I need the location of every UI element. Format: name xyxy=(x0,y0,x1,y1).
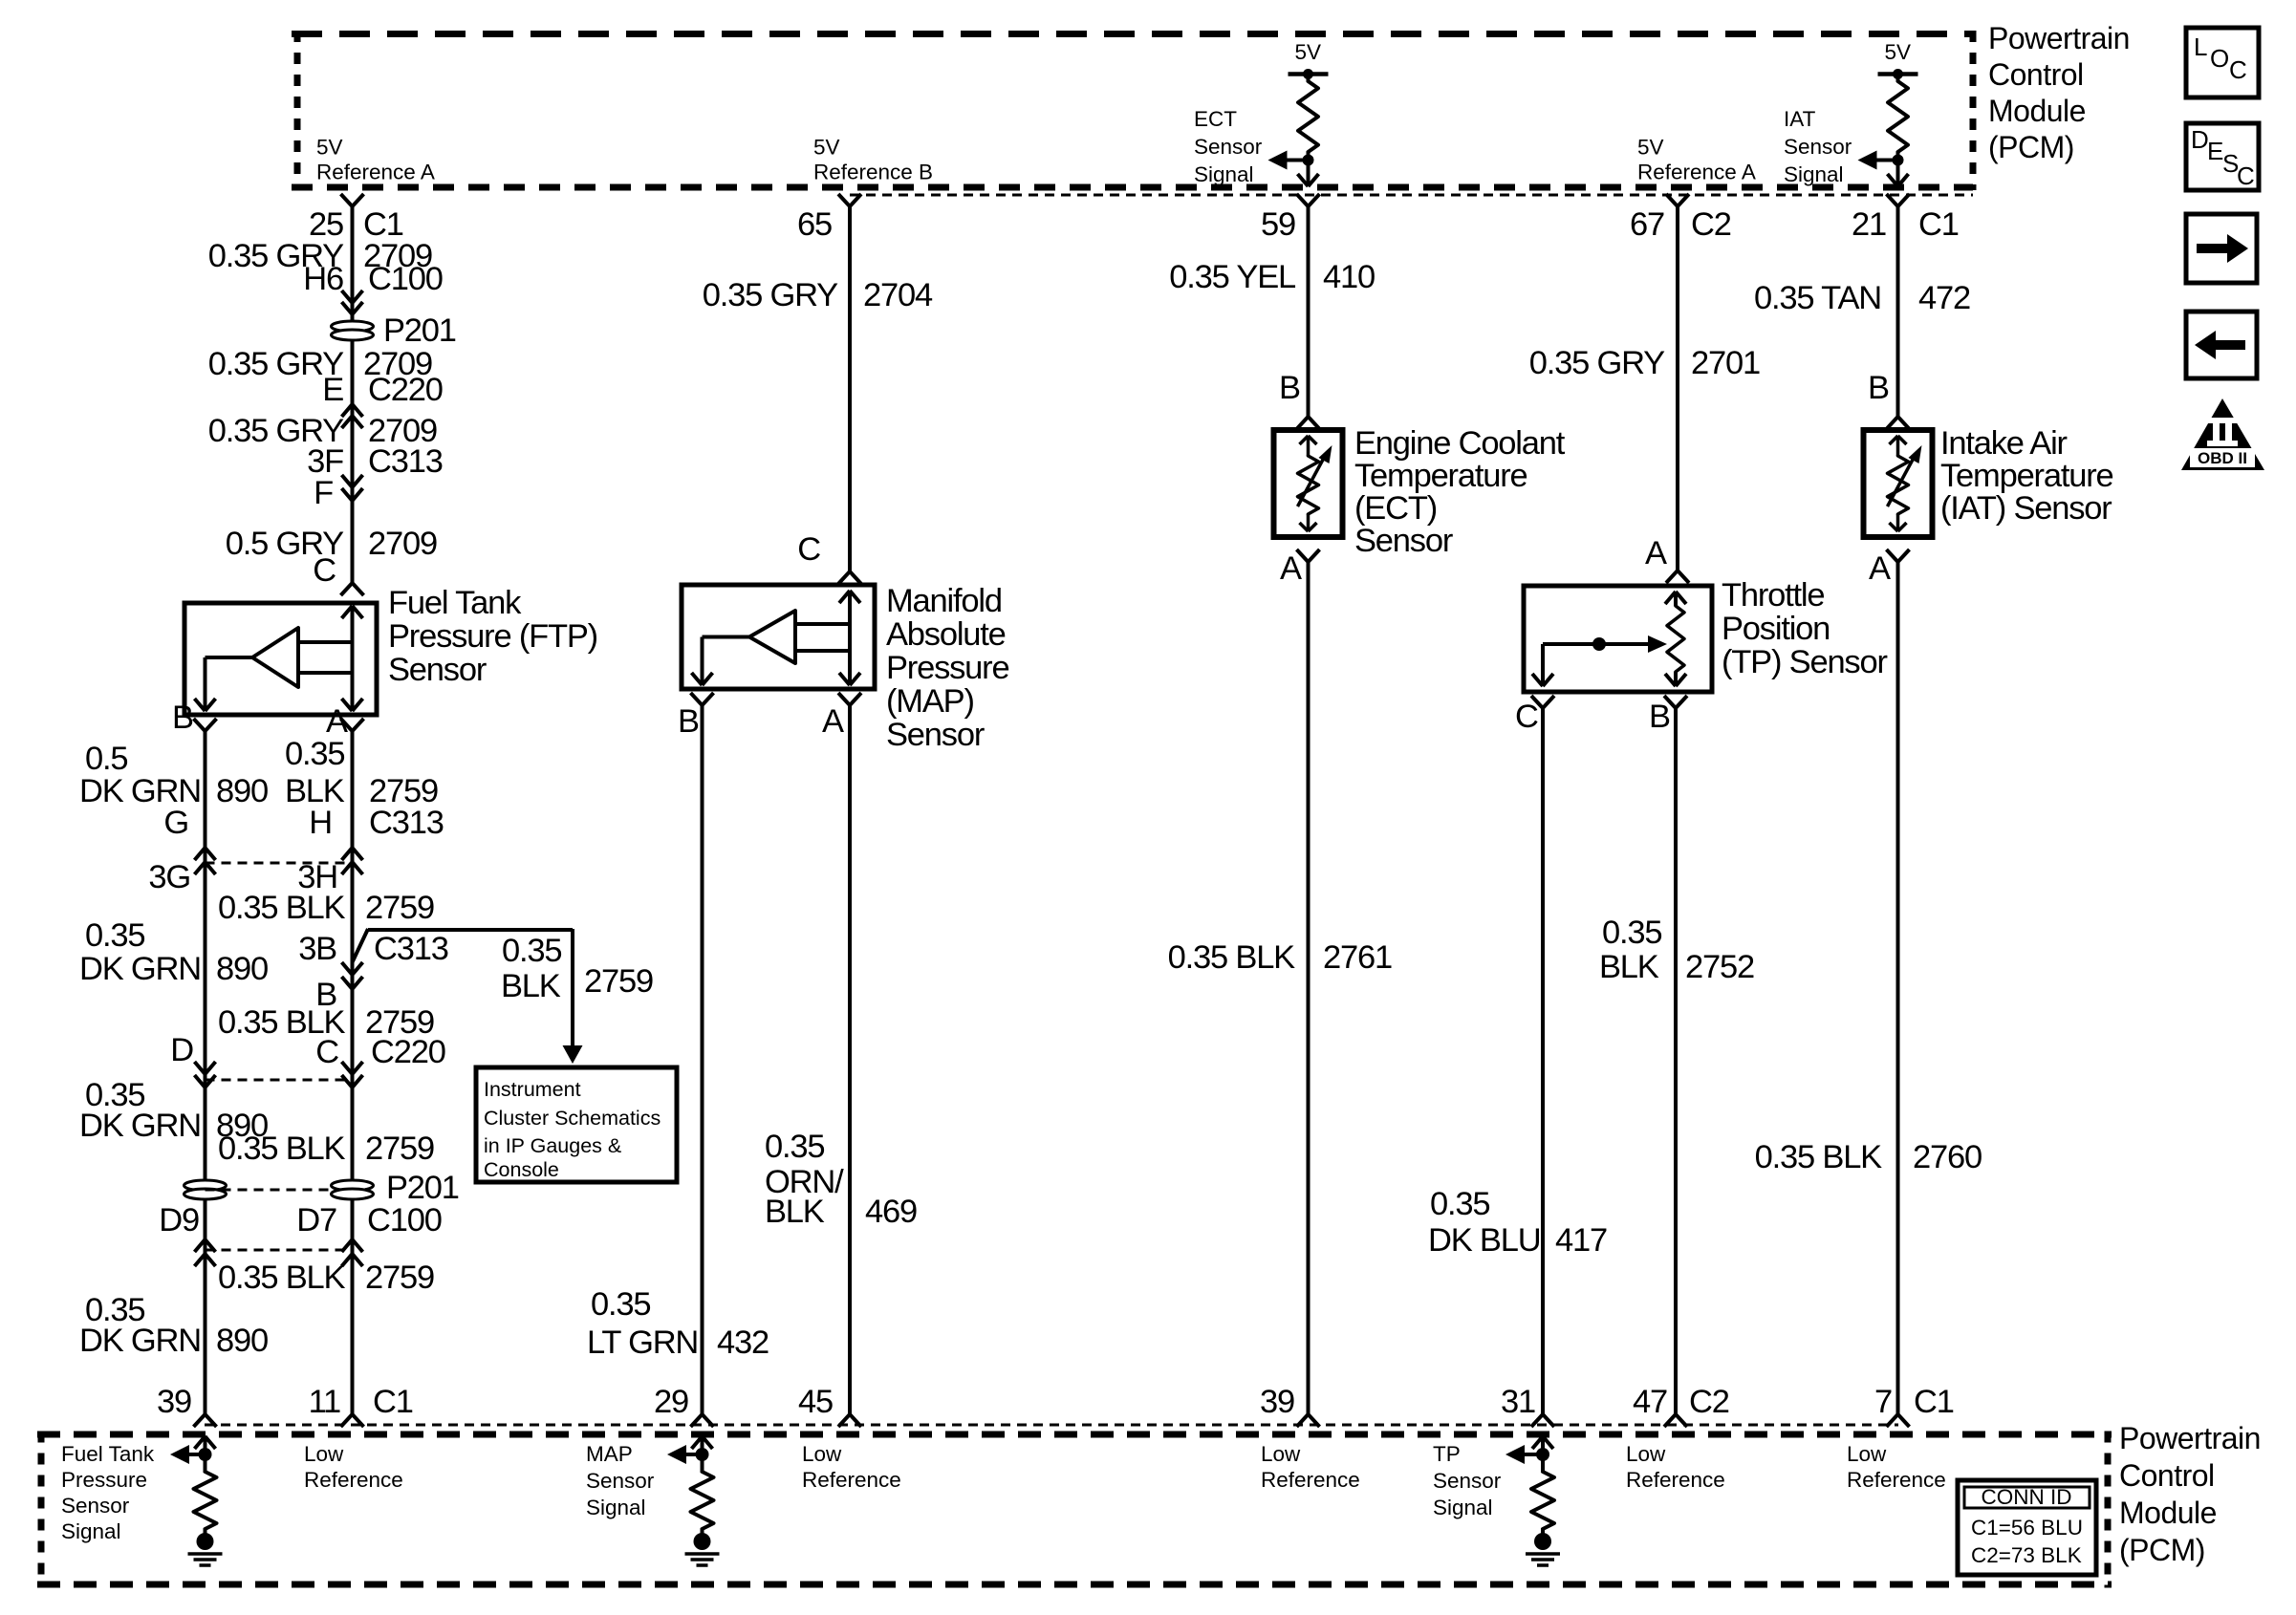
svg-text:Position: Position xyxy=(1722,611,1830,647)
svg-text:Sensor: Sensor xyxy=(1433,1469,1502,1493)
svg-text:5V: 5V xyxy=(813,136,840,160)
svg-text:890: 890 xyxy=(216,1323,268,1359)
svg-text:0.35 BLK: 0.35 BLK xyxy=(218,890,346,926)
svg-text:0.35 GRY: 0.35 GRY xyxy=(1529,345,1665,381)
svg-text:Signal: Signal xyxy=(1784,162,1844,186)
svg-text:C: C xyxy=(313,552,336,589)
svg-text:A: A xyxy=(1645,535,1667,571)
svg-text:31: 31 xyxy=(1501,1384,1535,1420)
svg-text:C: C xyxy=(2229,55,2247,84)
svg-text:C100: C100 xyxy=(368,261,443,297)
svg-text:Sensor: Sensor xyxy=(61,1494,130,1518)
svg-text:C2: C2 xyxy=(1691,206,1731,243)
svg-text:in IP Gauges &: in IP Gauges & xyxy=(484,1134,621,1157)
svg-text:C1: C1 xyxy=(1918,206,1959,243)
svg-text:0.35 YEL: 0.35 YEL xyxy=(1169,259,1296,295)
svg-text:Temperature: Temperature xyxy=(1940,458,2112,494)
svg-text:A: A xyxy=(1280,550,1302,587)
svg-text:TP: TP xyxy=(1433,1442,1461,1466)
svg-text:C1: C1 xyxy=(373,1384,413,1420)
svg-text:59: 59 xyxy=(1261,206,1295,243)
svg-text:C1: C1 xyxy=(1914,1384,1954,1420)
svg-text:Reference A: Reference A xyxy=(316,161,435,184)
svg-text:O: O xyxy=(2210,44,2229,73)
svg-text:Pressure: Pressure xyxy=(61,1468,147,1492)
svg-text:65: 65 xyxy=(797,206,832,243)
svg-text:2759: 2759 xyxy=(365,1260,434,1296)
svg-text:Low: Low xyxy=(1626,1442,1666,1466)
svg-text:Module: Module xyxy=(1988,94,2086,128)
svg-text:(IAT) Sensor: (IAT) Sensor xyxy=(1940,490,2112,527)
svg-text:OBD II: OBD II xyxy=(2198,449,2247,467)
svg-text:Signal: Signal xyxy=(586,1496,646,1519)
svg-text:BLK: BLK xyxy=(1599,949,1659,985)
svg-text:0.35 BLK: 0.35 BLK xyxy=(218,1130,346,1167)
svg-text:0.35 TAN: 0.35 TAN xyxy=(1754,280,1881,316)
svg-text:0.35 BLK: 0.35 BLK xyxy=(218,1260,346,1296)
svg-text:B: B xyxy=(1868,370,1889,406)
svg-text:5V: 5V xyxy=(1637,136,1664,160)
svg-text:469: 469 xyxy=(865,1194,917,1230)
svg-text:C: C xyxy=(2237,161,2255,190)
svg-text:0.35 BLK: 0.35 BLK xyxy=(1168,939,1296,976)
svg-text:L: L xyxy=(2194,32,2207,61)
svg-text:39: 39 xyxy=(1260,1384,1294,1420)
svg-text:Pressure (FTP): Pressure (FTP) xyxy=(388,618,597,655)
svg-text:5V: 5V xyxy=(316,136,343,160)
svg-text:Sensor: Sensor xyxy=(586,1469,655,1493)
svg-text:B: B xyxy=(1649,699,1670,735)
svg-text:Sensor: Sensor xyxy=(1354,523,1453,559)
svg-text:(ECT): (ECT) xyxy=(1354,490,1437,527)
svg-text:G: G xyxy=(163,805,188,841)
svg-text:C2=73 BLK: C2=73 BLK xyxy=(1971,1543,2082,1567)
svg-text:C: C xyxy=(315,1034,338,1070)
svg-text:C: C xyxy=(1515,699,1538,735)
svg-text:2701: 2701 xyxy=(1691,345,1760,381)
svg-text:472: 472 xyxy=(1918,280,1970,316)
svg-text:Console: Console xyxy=(484,1158,559,1181)
svg-text:Reference: Reference xyxy=(304,1468,403,1492)
svg-text:Engine Coolant: Engine Coolant xyxy=(1354,425,1566,462)
svg-text:67: 67 xyxy=(1630,206,1664,243)
svg-text:3G: 3G xyxy=(148,859,190,895)
svg-text:Intake Air: Intake Air xyxy=(1940,425,2068,462)
svg-text:Reference: Reference xyxy=(1626,1468,1725,1492)
svg-text:E: E xyxy=(2207,137,2223,165)
svg-text:Powertrain: Powertrain xyxy=(1988,21,2130,55)
svg-text:IAT: IAT xyxy=(1784,107,1816,131)
svg-text:A: A xyxy=(822,703,844,740)
svg-text:E: E xyxy=(322,372,343,408)
svg-text:(PCM): (PCM) xyxy=(1988,130,2074,164)
svg-text:0.35: 0.35 xyxy=(285,736,344,772)
svg-text:0.35: 0.35 xyxy=(1430,1186,1489,1222)
svg-text:D7: D7 xyxy=(296,1202,336,1238)
svg-text:Powertrain: Powertrain xyxy=(2119,1421,2261,1455)
svg-text:29: 29 xyxy=(654,1384,688,1420)
svg-text:Reference: Reference xyxy=(1261,1468,1360,1492)
svg-text:Low: Low xyxy=(1847,1442,1887,1466)
svg-text:C313: C313 xyxy=(368,443,443,480)
svg-text:Reference: Reference xyxy=(1847,1468,1946,1492)
svg-text:Absolute: Absolute xyxy=(886,616,1006,653)
svg-text:0.35: 0.35 xyxy=(85,917,144,954)
svg-text:Sensor: Sensor xyxy=(388,652,487,688)
svg-text:0.35 BLK: 0.35 BLK xyxy=(1755,1139,1883,1175)
svg-text:(PCM): (PCM) xyxy=(2119,1533,2205,1567)
svg-text:2761: 2761 xyxy=(1323,939,1392,976)
svg-text:D: D xyxy=(170,1032,193,1068)
svg-text:0.35: 0.35 xyxy=(591,1286,650,1323)
svg-text:5V: 5V xyxy=(1885,40,1912,64)
svg-text:C313: C313 xyxy=(374,931,448,967)
svg-text:Sensor: Sensor xyxy=(886,717,985,753)
svg-text:0.35: 0.35 xyxy=(1602,915,1661,951)
svg-text:DK GRN: DK GRN xyxy=(79,1323,201,1359)
svg-text:B: B xyxy=(172,700,193,736)
svg-text:890: 890 xyxy=(216,773,268,809)
svg-text:2704: 2704 xyxy=(863,277,933,313)
svg-text:Fuel Tank: Fuel Tank xyxy=(61,1442,155,1466)
svg-text:Pressure: Pressure xyxy=(886,650,1008,686)
svg-text:LT GRN: LT GRN xyxy=(587,1324,698,1361)
svg-text:C100: C100 xyxy=(367,1202,442,1238)
svg-text:DK BLU: DK BLU xyxy=(1428,1222,1540,1259)
svg-text:Signal: Signal xyxy=(61,1519,121,1543)
svg-text:H: H xyxy=(309,805,332,841)
svg-text:Reference: Reference xyxy=(802,1468,901,1492)
svg-text:F: F xyxy=(314,475,333,511)
svg-text:D9: D9 xyxy=(159,1202,199,1238)
svg-text:C313: C313 xyxy=(369,805,444,841)
svg-text:Manifold: Manifold xyxy=(886,583,1002,619)
svg-text:Signal: Signal xyxy=(1194,162,1254,186)
svg-text:0.35 GRY: 0.35 GRY xyxy=(703,277,838,313)
svg-text:2759: 2759 xyxy=(365,890,434,926)
svg-text:5V: 5V xyxy=(1295,40,1322,64)
svg-text:Low: Low xyxy=(802,1442,842,1466)
svg-text:890: 890 xyxy=(216,951,268,987)
svg-text:MAP: MAP xyxy=(586,1442,633,1466)
svg-text:C2: C2 xyxy=(1689,1384,1729,1420)
svg-text:Sensor: Sensor xyxy=(1194,135,1263,159)
svg-text:45: 45 xyxy=(798,1384,833,1420)
svg-text:(MAP): (MAP) xyxy=(886,683,974,720)
svg-text:3B: 3B xyxy=(298,931,336,967)
svg-text:2760: 2760 xyxy=(1913,1139,1982,1175)
svg-text:11: 11 xyxy=(309,1384,340,1420)
svg-text:Cluster Schematics: Cluster Schematics xyxy=(484,1107,661,1130)
svg-text:BLK: BLK xyxy=(501,968,561,1004)
svg-text:410: 410 xyxy=(1323,259,1375,295)
svg-text:C220: C220 xyxy=(368,372,443,408)
svg-text:Control: Control xyxy=(1988,57,2084,92)
svg-text:2759: 2759 xyxy=(584,963,653,1000)
svg-text:Low: Low xyxy=(304,1442,344,1466)
svg-text:C: C xyxy=(797,531,820,568)
svg-text:H6: H6 xyxy=(303,261,343,297)
svg-text:21: 21 xyxy=(1852,206,1886,243)
svg-text:A: A xyxy=(1869,550,1891,587)
svg-text:Control: Control xyxy=(2119,1458,2215,1493)
svg-text:Throttle: Throttle xyxy=(1722,577,1824,614)
svg-text:Fuel Tank: Fuel Tank xyxy=(388,585,522,621)
svg-text:432: 432 xyxy=(717,1324,769,1361)
svg-text:0.5: 0.5 xyxy=(85,741,127,777)
svg-text:Low: Low xyxy=(1261,1442,1301,1466)
svg-text:CONN ID: CONN ID xyxy=(1982,1485,2072,1509)
svg-text:47: 47 xyxy=(1633,1384,1667,1420)
svg-text:DK GRN: DK GRN xyxy=(79,951,201,987)
svg-text:2759: 2759 xyxy=(365,1130,434,1167)
svg-text:Reference A: Reference A xyxy=(1637,161,1756,184)
svg-text:BLK: BLK xyxy=(765,1194,825,1230)
svg-text:P201: P201 xyxy=(383,312,456,349)
svg-text:B: B xyxy=(678,703,699,740)
svg-text:(TP) Sensor: (TP) Sensor xyxy=(1722,644,1887,680)
svg-text:B: B xyxy=(1279,370,1300,406)
svg-text:0.35: 0.35 xyxy=(765,1129,824,1165)
svg-text:39: 39 xyxy=(157,1384,191,1420)
svg-text:Temperature: Temperature xyxy=(1354,458,1527,494)
svg-text:Instrument: Instrument xyxy=(484,1078,581,1101)
svg-text:D: D xyxy=(2191,125,2209,154)
svg-text:Signal: Signal xyxy=(1433,1496,1493,1519)
svg-text:2709: 2709 xyxy=(368,526,437,562)
svg-text:P201: P201 xyxy=(386,1170,459,1206)
svg-text:0.35: 0.35 xyxy=(502,933,561,969)
svg-text:Reference B: Reference B xyxy=(813,161,933,184)
svg-text:2752: 2752 xyxy=(1685,949,1754,985)
svg-text:DK GRN: DK GRN xyxy=(79,1108,201,1144)
svg-text:Sensor: Sensor xyxy=(1784,135,1852,159)
svg-text:C1=56 BLU: C1=56 BLU xyxy=(1971,1516,2083,1540)
svg-text:7: 7 xyxy=(1874,1384,1892,1420)
svg-text:ECT: ECT xyxy=(1194,107,1237,131)
svg-text:Module: Module xyxy=(2119,1496,2217,1530)
svg-text:C220: C220 xyxy=(371,1034,445,1070)
svg-text:417: 417 xyxy=(1555,1222,1607,1259)
